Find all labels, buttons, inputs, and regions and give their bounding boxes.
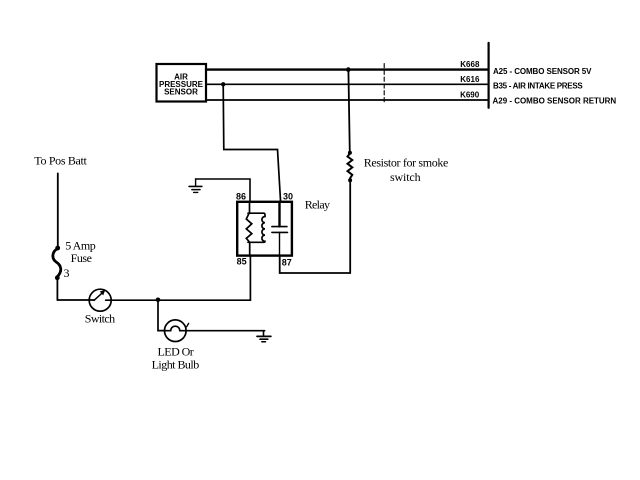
svg-text:To Pos Batt: To Pos Batt	[34, 153, 87, 167]
svg-text:87: 87	[282, 258, 292, 268]
svg-text:3: 3	[64, 266, 70, 280]
svg-text:Relay: Relay	[305, 198, 330, 212]
svg-text:K616: K616	[460, 75, 480, 84]
svg-text:SENSOR: SENSOR	[164, 87, 198, 96]
svg-text:30: 30	[283, 192, 293, 202]
svg-text:Light Bulb: Light Bulb	[152, 358, 200, 372]
svg-text:K690: K690	[460, 91, 480, 100]
svg-text:B35 - AIR INTAKE PRESS: B35 - AIR INTAKE PRESS	[493, 82, 583, 91]
svg-text:Switch: Switch	[85, 312, 115, 326]
svg-text:A29 - COMBO SENSOR RETURN: A29 - COMBO SENSOR RETURN	[493, 96, 617, 105]
svg-text:Fuse: Fuse	[71, 251, 92, 265]
svg-text:Resistor for smoke: Resistor for smoke	[364, 155, 449, 169]
svg-text:A25 - COMBO SENSOR 5V: A25 - COMBO SENSOR 5V	[493, 67, 592, 76]
svg-text:85: 85	[237, 257, 247, 267]
svg-text:K668: K668	[460, 60, 480, 69]
svg-text:LED Or: LED Or	[158, 345, 194, 359]
svg-text:switch: switch	[390, 170, 421, 184]
svg-text:86: 86	[236, 192, 246, 202]
